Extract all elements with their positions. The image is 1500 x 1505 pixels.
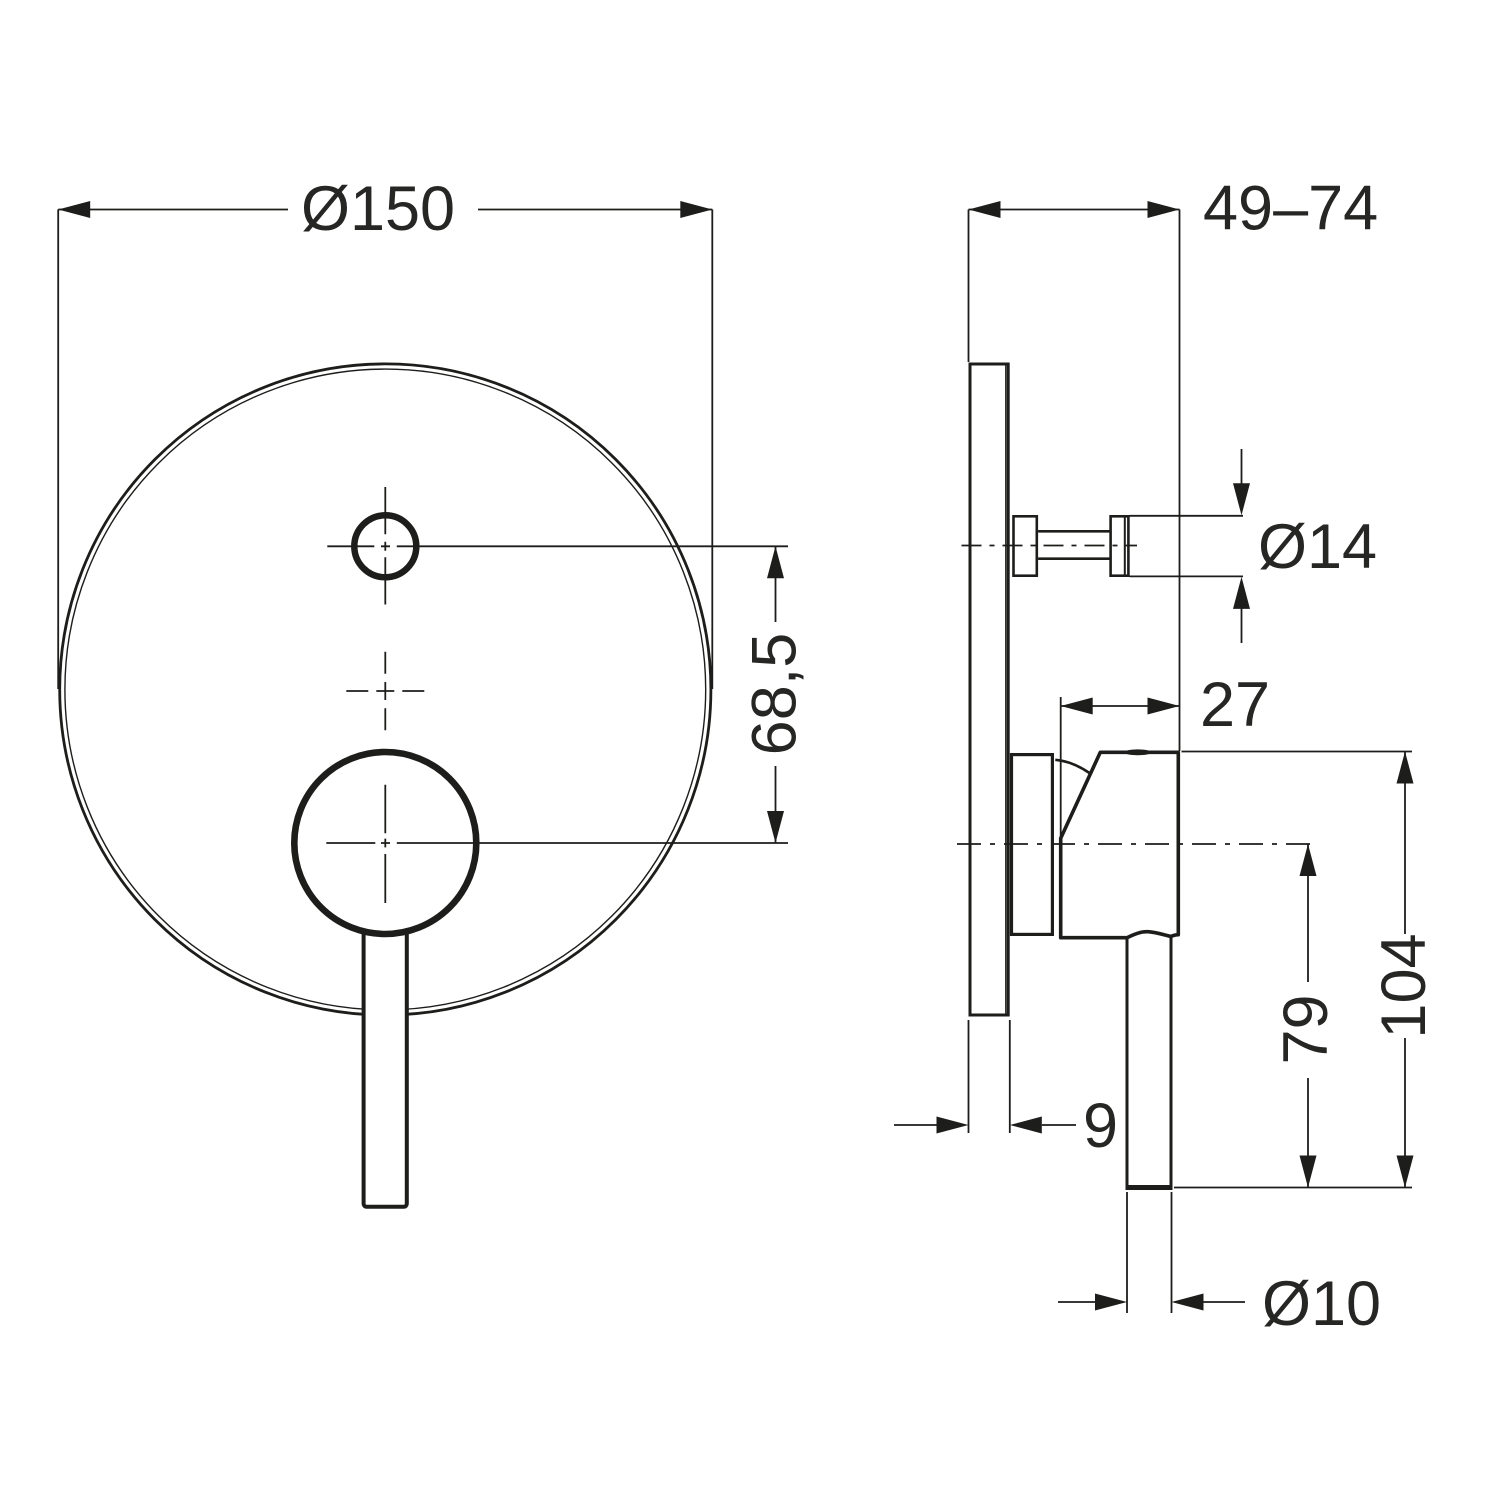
svg-text:104: 104 xyxy=(1369,933,1439,1038)
svg-text:27: 27 xyxy=(1200,670,1270,740)
svg-text:Ø10: Ø10 xyxy=(1262,1269,1381,1339)
svg-text:49–74: 49–74 xyxy=(1203,174,1378,244)
svg-text:Ø14: Ø14 xyxy=(1258,512,1377,582)
svg-text:68,5: 68,5 xyxy=(740,633,810,756)
svg-text:79: 79 xyxy=(1271,994,1341,1064)
svg-text:9: 9 xyxy=(1083,1091,1118,1161)
svg-text:Ø150: Ø150 xyxy=(301,174,455,244)
